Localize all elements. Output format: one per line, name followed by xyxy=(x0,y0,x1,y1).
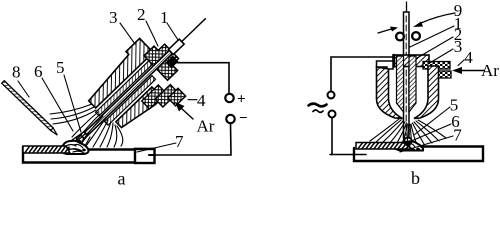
svg-text:+: + xyxy=(237,92,246,108)
svg-text:4: 4 xyxy=(464,48,473,67)
wire from lower terminal to workpiece (fig b) xyxy=(331,118,333,155)
electrode xyxy=(84,40,183,136)
leader for label 8 (filler rod, fig a) xyxy=(18,81,29,97)
svg-text:3: 3 xyxy=(109,8,118,27)
svg-text:2: 2 xyxy=(137,5,146,24)
left arrow at rod xyxy=(378,27,398,34)
arc lines a xyxy=(72,131,90,146)
right block xyxy=(135,149,155,163)
wire from torch to + terminal (fig a) xyxy=(174,63,229,94)
lower supply terminal (fig b) xyxy=(329,111,336,118)
leader for label 3 (nozzle, fig b) xyxy=(428,49,453,64)
svg-text:6: 6 xyxy=(34,62,43,81)
feed rollers (9) xyxy=(396,33,404,41)
leader for label 4 (gas inlet, fig b) xyxy=(458,60,464,66)
torch body b xyxy=(377,55,452,119)
wire stub into plate b xyxy=(330,154,366,156)
collet lower band xyxy=(105,76,156,125)
svg-text:7: 7 xyxy=(175,132,184,151)
leader for label 3 (nozzle, fig a) xyxy=(120,23,135,44)
wire from - terminal to workpiece (fig a) xyxy=(152,123,231,155)
9 leader with arrow xyxy=(413,13,455,27)
electrode tail xyxy=(182,19,206,42)
rear block xyxy=(144,40,184,80)
leader for label 1 (tungsten electrode, fig a) xyxy=(167,23,178,40)
svg-text:8: 8 xyxy=(12,63,21,82)
svg-text:a: a xyxy=(118,169,126,187)
leader for label 2 (torch body, fig b) xyxy=(417,37,453,58)
nozzle upper wall xyxy=(82,38,153,108)
upper supply terminal (fig b) xyxy=(328,92,335,99)
leader for label 6 (weld pool, fig b) xyxy=(409,124,451,142)
arc + weld pool b xyxy=(396,137,423,150)
svg-text:1: 1 xyxy=(160,8,169,27)
Ar arrow b xyxy=(452,67,484,74)
nozzle lower wall xyxy=(116,87,162,133)
central sleeve left xyxy=(397,56,404,112)
gas fan lines b xyxy=(370,119,446,146)
torch assembly (rotated ~ -44deg) xyxy=(64,0,234,164)
workpiece plate a xyxy=(23,146,155,163)
weld pool a xyxy=(62,136,89,155)
terminal + xyxy=(225,94,233,102)
filler rod (8) xyxy=(2,81,59,136)
svg-text:−: − xyxy=(239,111,248,127)
circuit wires b xyxy=(331,57,393,155)
workpiece plate b xyxy=(330,143,483,162)
weld bead strip b xyxy=(356,143,412,150)
cup left wall xyxy=(377,67,403,119)
top flange xyxy=(393,55,429,67)
collet upper band xyxy=(96,58,156,116)
electrode rod b xyxy=(404,2,410,138)
left shoulder xyxy=(377,61,394,69)
svg-text:4: 4 xyxy=(197,91,206,110)
gas fitting bars xyxy=(423,62,450,70)
leader for label 7 (workpiece, fig a) xyxy=(137,143,176,152)
svg-text:Ar: Ar xyxy=(481,61,499,80)
gas fan lines a xyxy=(50,104,123,147)
leader dash for label 4 (gas fitting, fig a) xyxy=(188,99,197,101)
svg-text:b: b xyxy=(411,168,420,186)
leader for label 7 (workpiece, fig b) xyxy=(400,136,453,152)
svg-text:5: 5 xyxy=(56,58,65,77)
svg-text:7: 7 xyxy=(453,126,462,145)
wire from torch to upper terminal (fig b) xyxy=(331,57,393,91)
terminal - xyxy=(226,115,234,123)
leader for label 1 (electrode, fig b) xyxy=(410,26,454,47)
leader for label 6 (weld pool, fig a) xyxy=(42,78,73,131)
central sleeve right xyxy=(409,56,416,112)
overlay strip xyxy=(23,146,70,153)
gas fitting (label 4) xyxy=(142,85,166,109)
leader for label 5 (arc, fig b) xyxy=(414,107,450,135)
leader lines a xyxy=(18,21,197,152)
svg-text:3: 3 xyxy=(454,37,463,56)
cable connector block xyxy=(166,56,179,69)
circuit wires a xyxy=(152,63,231,155)
back cap xyxy=(168,39,184,54)
AC source symbol (fig b) xyxy=(309,104,327,113)
leader for label 5 (arc, fig a) xyxy=(64,75,81,132)
Ar arrow a xyxy=(175,102,193,119)
leader lines b xyxy=(400,26,464,152)
svg-text:Ar: Ar xyxy=(197,117,215,136)
cup right wall xyxy=(414,66,439,119)
leader for label 2 (collet body, fig a) xyxy=(146,21,158,46)
